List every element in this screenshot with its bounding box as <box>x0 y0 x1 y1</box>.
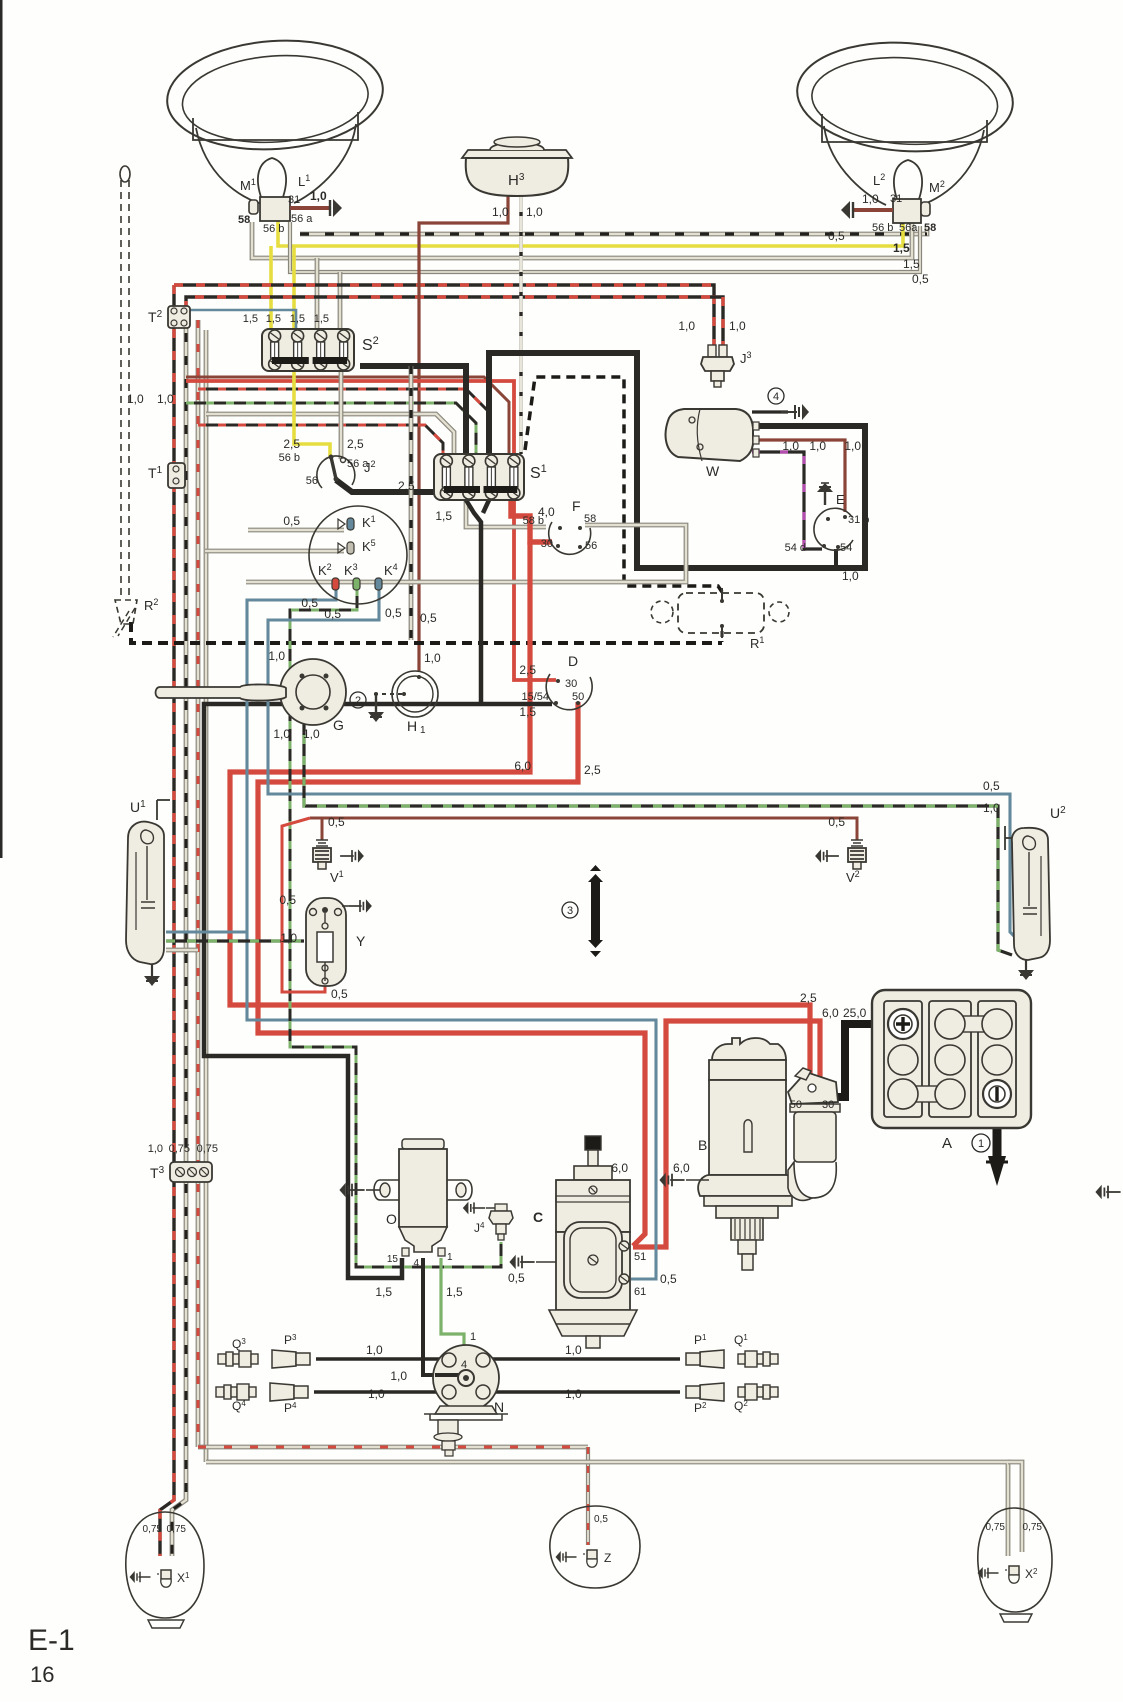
label 56a J2 <box>347 458 369 470</box>
svg-text:6,0: 6,0 <box>673 1161 690 1175</box>
label 58b F <box>523 515 544 527</box>
label 56a right <box>899 222 918 234</box>
label 50 solenoid <box>790 1099 802 1111</box>
label 30 solenoid <box>822 1099 834 1111</box>
fuel gauge F <box>549 522 591 554</box>
label 1,5 right riser2 <box>903 257 920 271</box>
radio R1 <box>651 588 789 638</box>
label 15-54 D <box>521 691 549 703</box>
svg-text:1,0: 1,0 <box>809 439 826 453</box>
svg-text:1,0: 1,0 <box>424 651 441 665</box>
svg-text:61: 61 <box>634 1286 646 1298</box>
svg-text:0,5: 0,5 <box>420 611 437 625</box>
svg-text:56: 56 <box>585 540 597 552</box>
ground U1 <box>144 964 160 986</box>
label L1 left headlight <box>298 173 310 189</box>
svg-text:1,0: 1,0 <box>303 727 320 741</box>
svg-text:1,0: 1,0 <box>983 801 1000 815</box>
svg-text:51: 51 <box>634 1251 646 1263</box>
wire 56b yellow headlights <box>278 220 903 246</box>
lamp H1 <box>392 671 438 717</box>
label 31b E <box>848 514 869 526</box>
label P4 <box>284 1401 297 1415</box>
starter solenoid <box>788 1068 840 1200</box>
boot P4 <box>270 1383 308 1401</box>
wire heavy black S1 to wiper loop <box>489 353 865 568</box>
label 30 D <box>565 678 577 690</box>
label 50 D <box>572 691 584 703</box>
svg-text:1,5: 1,5 <box>519 705 536 719</box>
label 2,5 J2 black <box>398 479 415 493</box>
label 0,75 T3 b <box>197 1143 218 1155</box>
svg-text:0,75: 0,75 <box>986 1522 1006 1533</box>
label 1,5 D <box>519 705 536 719</box>
label T3 <box>150 1165 165 1181</box>
coil O <box>374 1139 472 1256</box>
wire grey S2 to J2 56a <box>339 369 344 459</box>
svg-text:2,5: 2,5 <box>347 437 364 451</box>
svg-text:2,5: 2,5 <box>800 991 817 1005</box>
boot P2 <box>686 1383 724 1401</box>
svg-text:4: 4 <box>773 391 779 403</box>
wire grey-red dash vertical tail feed 1 <box>196 320 201 1447</box>
wire plug P3 <box>316 1357 449 1360</box>
label 1,0 dist right <box>565 1343 582 1357</box>
label 15 coil <box>387 1254 399 1265</box>
svg-text:1: 1 <box>447 1252 453 1263</box>
wire grey to K5 <box>205 549 344 554</box>
label 1,0 left headlight <box>310 189 327 203</box>
svg-text:1,0: 1,0 <box>844 439 861 453</box>
svg-text:1,5: 1,5 <box>314 313 329 325</box>
indicator lamp K1 <box>338 518 354 530</box>
semaphore U1 <box>126 800 170 964</box>
svg-text:0,5: 0,5 <box>331 987 348 1001</box>
label 1,0 G top <box>268 649 285 663</box>
ground generator <box>509 1255 556 1269</box>
svg-text:B: B <box>698 1137 707 1153</box>
svg-text:0,5: 0,5 <box>508 1271 525 1285</box>
wire red D30 feed <box>186 381 556 680</box>
label 0,5 J4 <box>508 1271 525 1285</box>
svg-text:1,5: 1,5 <box>893 241 910 255</box>
label 0,5 gen61 <box>660 1272 677 1286</box>
label 4,0 <box>538 505 555 519</box>
label 0,5 V1 low <box>279 893 296 907</box>
svg-text:0,5: 0,5 <box>660 1272 677 1286</box>
wire red generator to solenoid <box>633 1021 820 1247</box>
label 1,5 S2 f3 <box>290 313 305 325</box>
light switch G <box>156 659 347 725</box>
label 1,0 wiper b <box>809 439 826 453</box>
spark plug Q4 <box>216 1384 256 1400</box>
svg-text:1,0: 1,0 <box>678 319 695 333</box>
label 16 <box>30 1662 54 1687</box>
label Q4 <box>232 1399 246 1413</box>
label 1,0 dist left <box>366 1343 383 1357</box>
label Q1 <box>734 1333 748 1347</box>
svg-text:1,0: 1,0 <box>390 1369 407 1383</box>
battery A <box>872 990 1031 1128</box>
label 1,5 S1 <box>435 509 452 523</box>
label H3 <box>508 172 525 189</box>
label circled 1 <box>972 1134 990 1152</box>
label H1 <box>407 718 426 736</box>
wire black-red bundle to S1 <box>198 389 489 430</box>
svg-text:0,75: 0,75 <box>1023 1522 1043 1533</box>
svg-text:30: 30 <box>565 678 577 690</box>
svg-text:0,75: 0,75 <box>169 1143 190 1155</box>
wire yellow S2 to J2 56b <box>294 369 330 457</box>
label circled 4 <box>768 388 784 404</box>
label 1,0 G a <box>273 727 290 741</box>
wire yellow riser S2 fuse2 <box>292 246 296 329</box>
svg-text:E-1: E-1 <box>28 1624 75 1657</box>
svg-text:2,5: 2,5 <box>398 479 415 493</box>
wire grey to K1 <box>248 528 344 533</box>
label 1,0 J3 b <box>729 319 746 333</box>
label C generator <box>533 1209 543 1225</box>
svg-text:31 b: 31 b <box>848 514 869 526</box>
label E-1 <box>28 1624 75 1657</box>
wire black E 54 junction <box>834 549 838 568</box>
distributor N <box>424 1345 508 1456</box>
label 0,5 K wires c <box>385 606 402 620</box>
wire black-red bundle to S1 fuse1 <box>198 425 443 454</box>
label P1 <box>694 1333 707 1347</box>
label 0,75 X2 a <box>986 1522 1006 1533</box>
wire black-red dash to J3 upper <box>174 285 714 345</box>
svg-text:1,0: 1,0 <box>273 727 290 741</box>
label 56a left <box>291 213 313 225</box>
svg-text:1: 1 <box>978 1138 984 1150</box>
spark plug Q1 <box>738 1351 778 1367</box>
wire black D to coil 15 <box>204 704 552 1278</box>
label 1,0 G b <box>303 727 320 741</box>
svg-text:0,5: 0,5 <box>328 815 345 829</box>
label 0,5 U2 blue <box>983 779 1000 793</box>
label 56b J2 <box>279 452 300 464</box>
wire dashed screen lead horizontal <box>131 622 722 643</box>
bulb L1 <box>249 158 290 221</box>
svg-text:56 b: 56 b <box>279 452 300 464</box>
label T1 <box>148 465 163 481</box>
wire 31 white-black to right headlight <box>300 228 927 234</box>
label 1,5 right риser <box>893 241 910 255</box>
svg-text:3: 3 <box>567 905 573 917</box>
svg-text:0,5: 0,5 <box>912 272 929 286</box>
label P2 <box>694 1401 707 1415</box>
label K4 <box>384 562 398 578</box>
svg-text:0,75: 0,75 <box>143 1524 163 1535</box>
wire blue K2 to generator 61 <box>247 588 656 1279</box>
label 0,5 K wires a <box>301 596 318 610</box>
label 1,0 horn black <box>526 205 543 219</box>
svg-text:1,0: 1,0 <box>366 1343 383 1357</box>
label 1,5 coil 15 <box>375 1285 392 1299</box>
svg-text:0,5: 0,5 <box>385 606 402 620</box>
svg-text:1,0: 1,0 <box>842 569 859 583</box>
wire heavy black J2 dip to S1 <box>360 366 466 454</box>
svg-text:Z: Z <box>604 1551 611 1565</box>
svg-text:C: C <box>533 1209 543 1225</box>
wire black-green K3 to J4 <box>290 588 501 1267</box>
svg-text:H: H <box>407 718 417 734</box>
headlight L2 reflector <box>793 36 1016 206</box>
svg-text:1,5: 1,5 <box>435 509 452 523</box>
wire black battery ground <box>986 1105 1008 1186</box>
label 25,0 batt <box>843 1006 867 1020</box>
ground coil <box>339 1183 380 1197</box>
svg-text:2,5: 2,5 <box>283 437 300 451</box>
svg-text:1,5: 1,5 <box>375 1285 392 1299</box>
label 1,0 bundle a <box>127 392 144 406</box>
ground E <box>817 483 833 505</box>
lamp V1 <box>313 840 331 869</box>
ground J4 <box>463 1202 495 1215</box>
switch J4 <box>489 1204 513 1240</box>
label K5 <box>362 538 376 554</box>
svg-text:31: 31 <box>288 194 300 206</box>
svg-text:58: 58 <box>238 214 250 226</box>
svg-text:1,5: 1,5 <box>446 1285 463 1299</box>
label Q3 <box>232 1337 246 1351</box>
wire black-red dash to J3 lower <box>186 297 723 345</box>
svg-text:0,75: 0,75 <box>197 1143 218 1155</box>
svg-text:1,5: 1,5 <box>290 313 305 325</box>
semaphore U2 <box>1005 826 1050 960</box>
wire heavy black J2 56 to S1 <box>336 480 443 492</box>
label 56b left <box>263 223 284 235</box>
wire plug P4 <box>314 1390 449 1393</box>
label 1,0 right headlight <box>862 192 879 206</box>
label S1 <box>530 463 547 482</box>
wire blue T2 to S2 <box>188 310 296 329</box>
svg-text:E: E <box>836 492 845 507</box>
battery I terminal <box>983 1080 1011 1108</box>
fuse box S1 <box>434 454 524 500</box>
wire black-green bundle to S1 <box>186 403 476 454</box>
flasher relay Y <box>306 898 346 986</box>
wire blue K4 to U2 <box>268 588 1016 938</box>
svg-text:1,5: 1,5 <box>243 313 258 325</box>
wire blue U1 stub <box>166 930 247 933</box>
license light Z <box>550 1506 640 1588</box>
label O <box>386 1211 397 1227</box>
headlight L1 reflector <box>163 34 386 204</box>
wire dashed R1 drop <box>721 631 724 642</box>
svg-text:1,5: 1,5 <box>903 257 920 271</box>
wire red 6.0 S1 down <box>230 542 810 1088</box>
svg-text:50: 50 <box>572 691 584 703</box>
ground circled 2 <box>350 692 406 722</box>
spark plug Q2 <box>738 1384 778 1400</box>
svg-text:1,0: 1,0 <box>565 1387 582 1401</box>
svg-text:56a: 56a <box>899 222 918 234</box>
label V1 <box>330 869 344 885</box>
wire heavy black S1 to D lambda <box>466 500 489 704</box>
svg-text:6,0: 6,0 <box>611 1161 628 1175</box>
fuse box S2 <box>262 329 354 371</box>
label 1 coil <box>447 1252 453 1263</box>
svg-text:1,0: 1,0 <box>782 439 799 453</box>
svg-text:1,0: 1,0 <box>310 189 327 203</box>
label 0,5 V1 top <box>328 815 345 829</box>
label R2 <box>144 597 158 613</box>
svg-text:50: 50 <box>790 1099 802 1111</box>
label 6,0 batt <box>822 1006 839 1020</box>
wiper motor W <box>666 409 759 461</box>
ground V1 <box>340 849 364 863</box>
label 58 left <box>238 214 250 226</box>
svg-text:16: 16 <box>30 1662 54 1687</box>
svg-text:4: 4 <box>461 1359 467 1371</box>
label U1 <box>130 799 146 815</box>
horn H3 <box>462 137 572 196</box>
svg-text:1,0: 1,0 <box>729 319 746 333</box>
wire plug P2 <box>482 1390 680 1393</box>
wire grey to X2 <box>206 1462 1022 1556</box>
label X2 <box>1025 1567 1038 1581</box>
label 56b right <box>872 222 893 234</box>
label S2 <box>362 335 379 354</box>
svg-text:6,0: 6,0 <box>822 1006 839 1020</box>
switch J3 <box>701 345 734 387</box>
label E <box>836 492 845 507</box>
svg-text:1,0: 1,0 <box>368 1387 385 1401</box>
wire maroon L1 ground arrow <box>290 199 342 217</box>
ground Z <box>556 1551 577 1563</box>
svg-text:15/54: 15/54 <box>521 691 549 703</box>
wire grey vertical tail feed 2 <box>204 330 209 1462</box>
label 0,75 X1 a <box>143 1524 163 1535</box>
wire grey riser S2 fuse3 <box>315 258 320 329</box>
svg-text:0,5: 0,5 <box>828 815 845 829</box>
svg-text:O: O <box>386 1211 397 1227</box>
wire red Y loop <box>282 818 325 992</box>
label 0,5 K wires d <box>420 611 437 625</box>
wire maroon bundle to S1 fuse4 <box>186 377 509 454</box>
instrument cluster K <box>309 506 407 604</box>
label 2,5 D50 <box>584 763 601 777</box>
wire black-green G to U2 <box>304 714 1012 955</box>
wire white-black dashed vertical <box>409 366 414 640</box>
ground mid right <box>1095 1185 1120 1199</box>
indicator lamp K4 <box>375 578 382 590</box>
ground U2 <box>1018 960 1034 980</box>
label 1,0 Y <box>280 931 297 945</box>
label 1,0 bundle b <box>157 392 174 406</box>
svg-text:54: 54 <box>840 542 852 554</box>
label 58 right <box>924 222 936 234</box>
ground X1 <box>130 1571 151 1583</box>
wire black wiper stub to ground4 <box>752 410 788 413</box>
label 1,5 S2 f2 <box>266 313 281 325</box>
svg-text:1,0: 1,0 <box>862 192 879 206</box>
wire dashed S1 to radio R1 <box>525 377 722 592</box>
label X1 <box>177 1571 190 1585</box>
wire black-red dash vertical 1 <box>160 285 174 1556</box>
svg-text:0,5: 0,5 <box>828 229 845 243</box>
label M1 left headlight <box>240 177 256 193</box>
label P3 <box>284 1333 297 1347</box>
svg-text:56 a: 56 a <box>291 213 313 225</box>
ground X2 <box>978 1567 999 1579</box>
label 1,0 U2 green <box>983 801 1000 815</box>
label 0,5 dash wire <box>828 229 845 243</box>
label 0,75 X2 b <box>1023 1522 1043 1533</box>
label 1,0 dist right2 <box>565 1387 582 1401</box>
wire black G to D 15-54 <box>346 702 552 705</box>
svg-text:2,5: 2,5 <box>519 663 536 677</box>
label 31 right <box>890 193 902 205</box>
label 0,75 T3 a <box>169 1143 190 1155</box>
wire black horn to S1 <box>519 196 522 454</box>
lamp V2 <box>848 840 866 869</box>
label 0,5 Y low <box>331 987 348 1001</box>
svg-text:1,0: 1,0 <box>565 1343 582 1357</box>
label Z <box>604 1551 611 1565</box>
svg-text:G: G <box>333 717 344 733</box>
label 1 distributor <box>470 1331 476 1343</box>
svg-text:0,5: 0,5 <box>301 596 318 610</box>
wire grey U1 stub <box>166 948 198 953</box>
connector T3 <box>170 1162 212 1182</box>
svg-text:1,0: 1,0 <box>268 649 285 663</box>
tail light X2 <box>978 1508 1052 1622</box>
label 4 distributor <box>461 1359 467 1371</box>
wire grey F 58 loop <box>246 525 686 582</box>
wire maroon wiper to E 31b <box>752 440 845 512</box>
svg-text:0,75: 0,75 <box>167 1524 187 1535</box>
svg-text:56 b: 56 b <box>263 223 284 235</box>
svg-text:1,0: 1,0 <box>526 205 543 219</box>
wire maroon L2 ground arrow <box>841 201 893 219</box>
label Y <box>356 933 366 949</box>
label N <box>494 1399 504 1415</box>
wire grey riser S2 fuse4 <box>338 272 343 329</box>
svg-text:4,0: 4,0 <box>538 505 555 519</box>
svg-text:30: 30 <box>822 1099 834 1111</box>
label 2,5 batt <box>800 991 817 1005</box>
label D <box>568 653 578 669</box>
label 1,0 dist left2 <box>368 1387 385 1401</box>
label 0,5 V2 <box>828 815 845 829</box>
wire black-green U1 stub <box>166 939 304 942</box>
svg-text:Y: Y <box>356 933 366 949</box>
ground starter B <box>659 1173 709 1187</box>
svg-text:2: 2 <box>355 695 361 707</box>
label W <box>706 463 720 479</box>
wire red S1 to F 30 <box>511 500 552 542</box>
label K3 <box>344 562 358 578</box>
label 1,0 T3 <box>148 1143 163 1155</box>
label A battery <box>942 1135 952 1152</box>
switch E <box>814 508 853 550</box>
label 1,5 S2 f1 <box>243 313 258 325</box>
indicator lamp K2 <box>332 578 339 590</box>
svg-text:1: 1 <box>470 1331 476 1343</box>
label 1,5 S2 f4 <box>314 313 329 325</box>
svg-text:56: 56 <box>306 475 318 487</box>
svg-text:1,0: 1,0 <box>492 205 509 219</box>
label 1,0 wiper c <box>844 439 861 453</box>
svg-text:W: W <box>706 463 720 479</box>
label K1 <box>362 514 376 530</box>
wire black-purple wiper to E 54d <box>752 452 822 549</box>
svg-text:0,5: 0,5 <box>324 607 341 621</box>
svg-text:54 d: 54 d <box>785 542 806 554</box>
